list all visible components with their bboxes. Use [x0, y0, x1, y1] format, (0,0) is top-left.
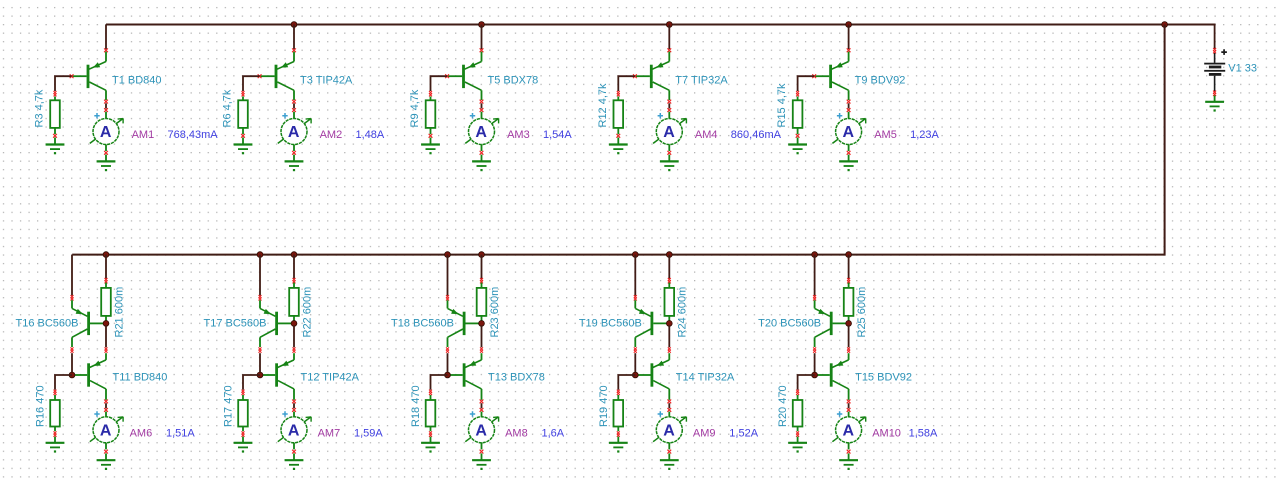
svg-text:T20 BC560B: T20 BC560B — [758, 317, 821, 329]
svg-text:T13 BDX78: T13 BDX78 — [488, 371, 545, 383]
ground under AM5 — [839, 155, 858, 172]
wire: lower rail down to R21 — [105, 255, 107, 279]
svg-text:R21 600m: R21 600m — [113, 287, 125, 338]
svg-text:768,43mA: 768,43mA — [168, 129, 219, 141]
pin marker: R18 bottom terminal — [429, 431, 432, 434]
ground at R15 — [788, 138, 807, 155]
svg-text:A: A — [288, 422, 300, 439]
ammeter AM1 — [90, 112, 123, 151]
wire: T7 collector to ammeter AM4 — [668, 103, 670, 108]
wire: T11 collector to ammeter AM6 — [105, 403, 107, 408]
wire: T20 collector down to T15 base node — [813, 347, 816, 350]
node: junction of R21, T16 base and T11 emitter — [103, 321, 109, 327]
svg-text:T9 BDV92: T9 BDV92 — [855, 74, 906, 86]
wire: node down to T15 emitter — [848, 325, 850, 347]
resistor R25 — [844, 283, 854, 322]
pin marker: ground terminal under AM2 — [292, 151, 296, 155]
ammeter AM8 — [465, 411, 498, 449]
pin marker: T14 emitter terminal — [668, 347, 671, 350]
resistor R6 — [238, 97, 248, 135]
pin markers: R6 top terminal — [242, 91, 245, 94]
wire: T12 collector to ammeter AM7 — [293, 403, 295, 408]
transistor T18 (BC560B, PNP) — [448, 300, 482, 347]
ground under AM4 — [660, 155, 679, 172]
pin markers: R24 top terminal — [668, 278, 671, 281]
pin marker: ground terminal under AM1 — [104, 151, 108, 155]
svg-text:R9 4,7k: R9 4,7k — [409, 89, 421, 127]
svg-text:A: A — [663, 124, 675, 141]
ground under AM1 — [97, 155, 116, 172]
wire: T5 collector to ammeter AM3 — [481, 103, 483, 108]
pin marker: ground terminal under AM3 — [480, 151, 484, 155]
svg-text:AM5: AM5 — [874, 129, 897, 141]
node: junction of R22, T17 base and T12 emitter — [291, 321, 297, 327]
svg-text:A: A — [100, 422, 112, 439]
pin markers: R25 top terminal — [847, 278, 850, 281]
ammeter AM7 — [278, 411, 311, 449]
svg-text:1,51A: 1,51A — [166, 428, 195, 440]
wire: lower rail down to T16 emitter — [71, 255, 73, 296]
resistor R22 — [289, 283, 299, 322]
pin marker: T1 base terminal — [70, 74, 74, 78]
node: junction of top rail and link wire to lower rail — [1162, 22, 1168, 28]
transistor T19 (BC560B, PNP) — [635, 300, 669, 347]
pin marker: AM5 + terminal — [847, 108, 851, 112]
svg-text:A: A — [475, 124, 487, 141]
pin marker: T3 collector terminal — [292, 100, 296, 104]
svg-text:T3 TIP42A: T3 TIP42A — [300, 74, 353, 86]
svg-text:AM3: AM3 — [507, 129, 530, 141]
svg-text:R12 4,7k: R12 4,7k — [597, 83, 609, 128]
wire: T5 base to resistor R9 — [431, 76, 448, 91]
transistor T1 (BD840, PNP) — [72, 52, 106, 100]
wire: node down to T12 emitter — [293, 325, 295, 347]
svg-text:AM8: AM8 — [505, 428, 528, 440]
svg-text:A: A — [843, 422, 855, 439]
svg-text:T5 BDX78: T5 BDX78 — [488, 74, 539, 86]
svg-text:R24 600m: R24 600m — [677, 287, 689, 338]
wire: lower rail down to T17 emitter — [259, 255, 261, 296]
svg-text:AM10: AM10 — [872, 428, 901, 440]
pin marker: R19 bottom terminal — [617, 431, 620, 434]
pin markers: R3 top terminal — [54, 91, 57, 94]
ammeter AM2 — [278, 112, 311, 151]
pin marker: R16 bottom terminal — [54, 431, 57, 434]
svg-text:T14 TIP32A: T14 TIP32A — [676, 371, 735, 383]
wire: T14 collector to ammeter AM9 — [668, 403, 670, 408]
pin marker: T13 collector terminal — [480, 400, 484, 404]
pin marker: ground terminal under AM4 — [667, 151, 671, 155]
pin markers: R17 top terminal — [242, 390, 245, 393]
node: junction of top rail and T7 emitter branch — [666, 22, 672, 28]
pin marker: R20 bottom terminal — [796, 431, 799, 434]
svg-text:T1 BD840: T1 BD840 — [112, 74, 162, 86]
resistor R9 — [426, 97, 436, 135]
ground under AM8 — [472, 453, 491, 470]
node: junction of top rail and T9 emitter branch — [846, 22, 852, 28]
pin marker: R15 bottom terminal — [796, 134, 800, 138]
pin marker: T20 emitter terminal — [813, 295, 816, 298]
wire: lower rail down to T19 emitter — [634, 255, 636, 296]
ground at R3 — [46, 138, 65, 155]
pin marker: T19 emitter terminal — [634, 295, 637, 298]
resistor R21 — [101, 283, 111, 322]
transistor T17 (BC560B, PNP) — [260, 300, 294, 347]
battery V1 (33 V) — [1204, 49, 1227, 91]
transistor T7 (TIP32A, PNP) — [635, 52, 669, 100]
svg-text:R20 470: R20 470 — [777, 385, 789, 427]
svg-text:A: A — [843, 124, 855, 141]
wire: node down to T14 emitter — [668, 325, 670, 347]
node: lower rail junction at R25 — [846, 252, 852, 258]
ground at R17 — [234, 437, 253, 453]
svg-text:1,54A: 1,54A — [543, 129, 572, 141]
wire: T16 collector down to T11 base node — [71, 347, 74, 350]
wire: T1 collector to ammeter AM1 — [105, 103, 107, 108]
node: lower rail junction at T20 emitter branch — [812, 252, 818, 258]
pin marker: ground terminal under AM7 — [292, 450, 296, 454]
node: lower rail junction at R23 — [479, 252, 485, 258]
pin marker: AM3 + terminal — [480, 108, 484, 112]
pin marker: AM2 + terminal — [292, 108, 296, 112]
pin marker: AM10 + terminal — [847, 408, 851, 412]
pin marker: T12 collector terminal — [292, 400, 296, 404]
wire: node to resistor R16 — [55, 375, 72, 390]
svg-text:T15 BDV92: T15 BDV92 — [855, 371, 912, 383]
pin markers: R12 top terminal — [617, 91, 620, 94]
node: junction of T20 collector, T15 base and R20 — [812, 372, 818, 378]
svg-text:T11 BD840: T11 BD840 — [113, 371, 168, 383]
node: junction of top rail and T3 emitter branch — [291, 22, 297, 28]
pin marker: AM9 + terminal — [667, 408, 671, 412]
transistor T5 (BDX78, PNP) — [447, 52, 481, 100]
wire: lower rail down to R22 — [293, 255, 295, 279]
node: junction of T17 collector, T12 base and R17 — [257, 372, 263, 378]
pin marker: AM1 + terminal — [104, 108, 108, 112]
node: junction of R25, T20 base and T15 emitter — [846, 321, 852, 327]
pin marker: T18 emitter terminal — [446, 295, 449, 298]
node: lower rail junction at R22 — [291, 252, 297, 258]
wire: node to resistor R19 — [618, 375, 635, 390]
wire: link from top rail down to lower supply rail — [72, 25, 1164, 255]
svg-text:1,48A: 1,48A — [356, 129, 385, 141]
pin marker: AM8 + terminal — [480, 408, 484, 412]
node: junction of T18 collector, T13 base and R18 — [445, 372, 451, 378]
pin marker: T3 emitter terminal — [292, 48, 296, 52]
svg-text:T7 TIP32A: T7 TIP32A — [675, 74, 728, 86]
pin marker: T5 collector terminal — [480, 100, 484, 104]
resistor R18 — [426, 395, 436, 431]
resistor R24 — [665, 283, 675, 322]
pin marker: T9 emitter terminal — [847, 48, 851, 52]
svg-text:R19 470: R19 470 — [598, 385, 610, 427]
pin marker: R9 bottom terminal — [429, 134, 433, 138]
wire: rail down to T5 emitter — [481, 25, 483, 50]
node: junction of R23, T18 base and T13 emitter — [479, 321, 485, 327]
svg-text:1,58A: 1,58A — [909, 428, 938, 440]
wire: T19 collector down to T14 base node — [634, 347, 637, 350]
pin marker: T5 base terminal — [445, 74, 449, 78]
pin markers: R20 top terminal — [796, 390, 799, 393]
svg-text:1,52A: 1,52A — [729, 428, 758, 440]
pin marker: T9 collector terminal — [847, 100, 851, 104]
wire: T1 base to resistor R3 — [55, 76, 72, 91]
wire: lower rail down to R23 — [481, 255, 483, 279]
pin marker: T1 collector terminal — [104, 100, 108, 104]
transistor T13 (BDX78, PNP) — [450, 353, 482, 400]
transistor T15 (BDV92, PNP) — [817, 353, 849, 400]
wire: rail down to T1 emitter — [105, 25, 107, 50]
wire: rail down to T9 emitter — [848, 25, 850, 50]
node: lower rail junction at R24 — [666, 252, 672, 258]
resistor R3 — [50, 97, 60, 135]
wire: T3 collector to ammeter AM2 — [293, 103, 295, 108]
ground under AM7 — [285, 453, 304, 470]
pin markers: R9 top terminal — [429, 91, 432, 94]
transistor T20 (BC560B, PNP) — [815, 300, 849, 347]
resistor R16 — [50, 395, 60, 431]
svg-text:R3 4,7k: R3 4,7k — [34, 89, 46, 127]
wire: T9 base to resistor R15 — [798, 76, 815, 91]
ammeter AM10 — [832, 411, 865, 449]
pin marker: T11 emitter terminal — [105, 347, 108, 350]
wire: T17 collector down to T12 base node — [259, 347, 262, 350]
pin markers: R22 top terminal — [293, 278, 296, 281]
transistor T12 (TIP42A, PNP) — [262, 353, 294, 400]
wire: rail down to T3 emitter — [293, 25, 295, 50]
pin marker: R6 bottom terminal — [241, 134, 245, 138]
ammeter AM3 — [465, 112, 498, 151]
node: lower rail junction at T18 emitter branch — [445, 252, 451, 258]
ground at R9 — [421, 138, 440, 155]
svg-text:R22 600m: R22 600m — [301, 287, 313, 338]
ammeter AM4 — [653, 112, 686, 151]
svg-text:AM4: AM4 — [695, 129, 718, 141]
wire: lower rail down to T20 emitter — [814, 255, 816, 296]
svg-text:R18 470: R18 470 — [410, 385, 422, 427]
svg-text:T16 BC560B: T16 BC560B — [16, 317, 79, 329]
resistor R17 — [238, 395, 248, 431]
svg-text:AM9: AM9 — [693, 428, 716, 440]
wire: lower rail down to R25 — [848, 255, 850, 279]
resistor R23 — [477, 283, 487, 322]
ammeter AM9 — [653, 411, 686, 449]
pin markers: R19 top terminal — [617, 390, 620, 393]
pin markers: R21 top terminal — [105, 278, 108, 281]
resistor R12 — [614, 97, 624, 135]
pin markers: R15 top terminal — [796, 91, 799, 94]
svg-text:A: A — [100, 124, 112, 141]
node: junction of T16 collector, T11 base and R16 — [69, 372, 75, 378]
ammeter AM5 — [832, 112, 865, 151]
transistor T16 (BC560B, PNP) — [72, 300, 106, 347]
pin marker: T15 collector terminal — [847, 400, 851, 404]
pin marker: T9 base terminal — [812, 74, 816, 78]
pin marker: AM6 + terminal — [104, 408, 108, 412]
svg-text:AM2: AM2 — [320, 129, 343, 141]
svg-text:1,59A: 1,59A — [354, 428, 383, 440]
pin marker: AM7 + terminal — [292, 408, 296, 412]
node: junction of top rail and T5 emitter branch — [479, 22, 485, 28]
pin marker: AM4 + terminal — [667, 108, 671, 112]
node: lower rail junction at T19 emitter branch — [632, 252, 638, 258]
pin marker: ground terminal under AM8 — [480, 450, 484, 454]
pin marker: R3 bottom terminal — [53, 134, 57, 138]
wire: rail down to T7 emitter — [668, 25, 670, 50]
wire: T13 collector to ammeter AM8 — [481, 403, 483, 408]
resistor R15 — [793, 97, 803, 135]
ground under AM3 — [472, 155, 491, 172]
ground at R18 — [421, 437, 440, 453]
wire: T18 collector down to T13 base node — [446, 347, 449, 350]
svg-text:A: A — [475, 422, 487, 439]
wire: node to resistor R20 — [798, 375, 815, 390]
svg-text:1,6A: 1,6A — [542, 428, 565, 440]
pin marker: T16 emitter terminal — [71, 295, 74, 298]
svg-text:R16 470: R16 470 — [35, 385, 47, 427]
transistor T14 (TIP32A, PNP) — [637, 353, 669, 400]
pin markers: R16 top terminal — [54, 390, 57, 393]
wire: T3 base to resistor R6 — [243, 76, 260, 91]
pin marker: T3 base terminal — [258, 74, 262, 78]
svg-text:T17 BC560B: T17 BC560B — [204, 317, 267, 329]
svg-text:R23 600m: R23 600m — [489, 287, 501, 338]
ground at R19 — [609, 437, 628, 453]
svg-text:T19 BC560B: T19 BC560B — [579, 317, 642, 329]
ground under AM6 — [97, 453, 116, 470]
wire: T7 base to resistor R12 — [618, 76, 635, 91]
pin marker: T7 collector terminal — [667, 100, 671, 104]
wire: node to resistor R18 — [431, 375, 448, 390]
svg-text:R15 4,7k: R15 4,7k — [776, 83, 788, 128]
pin marker: T17 emitter terminal — [259, 295, 262, 298]
pin marker: T5 emitter terminal — [480, 48, 484, 52]
ground at R16 — [46, 437, 65, 453]
ground at R6 — [234, 138, 253, 155]
wire: node to resistor R17 — [243, 375, 260, 390]
pin marker: ground terminal under AM9 — [667, 450, 671, 454]
ammeter AM6 — [90, 411, 123, 449]
ground at R12 — [609, 138, 628, 155]
wire: battery V1 positive lead from rail — [1214, 25, 1216, 49]
resistor R19 — [614, 395, 624, 431]
pin markers: R23 top terminal — [480, 278, 483, 281]
wire: T15 collector to ammeter AM10 — [848, 403, 850, 408]
svg-text:1,23A: 1,23A — [910, 129, 939, 141]
transistor T11 (BD840, PNP) — [74, 353, 106, 400]
pin marker: R17 bottom terminal — [242, 431, 245, 434]
wire: node down to T11 emitter — [105, 325, 107, 347]
pin marker: ground terminal under AM6 — [104, 450, 108, 454]
pin markers: R18 top terminal — [429, 390, 432, 393]
wire: top supply rail from T1 emitter to battery V1 — [106, 24, 1216, 26]
pin marker: T1 emitter terminal — [104, 48, 108, 52]
ground under battery V1 — [1205, 95, 1224, 111]
pin marker: T13 emitter terminal — [480, 347, 483, 350]
ground under AM2 — [285, 155, 304, 172]
svg-text:R17 470: R17 470 — [223, 385, 235, 427]
pin marker: T11 collector terminal — [104, 400, 108, 404]
node: lower rail junction at R21 — [103, 252, 109, 258]
resistor R20 — [793, 395, 803, 431]
pin marker: R12 bottom terminal — [616, 134, 620, 138]
pin marker: T7 base terminal — [633, 74, 637, 78]
transistor T9 (BDV92, PNP) — [814, 52, 848, 100]
svg-text:AM1: AM1 — [132, 129, 155, 141]
svg-text:T12 TIP42A: T12 TIP42A — [301, 371, 360, 383]
svg-text:A: A — [288, 124, 300, 141]
node: junction of R24, T19 base and T14 emitter — [666, 321, 672, 327]
wire: lower rail down to R24 — [668, 255, 670, 279]
svg-text:V1 33: V1 33 — [1228, 63, 1257, 75]
svg-text:T18 BC560B: T18 BC560B — [391, 317, 454, 329]
svg-text:A: A — [663, 422, 675, 439]
pin marker: T12 emitter terminal — [293, 347, 296, 350]
svg-text:R25 600m: R25 600m — [856, 287, 868, 338]
pin marker: T7 emitter terminal — [667, 48, 671, 52]
transistor T3 (TIP42A, PNP) — [260, 52, 294, 100]
pin marker: ground terminal under AM10 — [847, 450, 851, 454]
wire: T9 collector to ammeter AM5 — [848, 103, 850, 108]
svg-text:R6 4,7k: R6 4,7k — [222, 89, 234, 127]
wire: lower rail down to T18 emitter — [447, 255, 449, 296]
node: lower rail junction at T17 emitter branch — [257, 252, 263, 258]
svg-text:860,46mA: 860,46mA — [731, 129, 782, 141]
pin marker: V1 + terminal — [1213, 48, 1216, 51]
pin marker: T14 collector terminal — [667, 400, 671, 404]
ground at R20 — [788, 437, 807, 453]
pin marker: V1 - terminal — [1213, 91, 1216, 94]
pin marker: T15 emitter terminal — [847, 347, 850, 350]
node: junction of T19 collector, T14 base and R19 — [632, 372, 638, 378]
svg-text:AM7: AM7 — [318, 428, 341, 440]
pin marker: ground terminal under AM5 — [847, 151, 851, 155]
svg-text:AM6: AM6 — [130, 428, 153, 440]
ground under AM9 — [660, 453, 679, 470]
ground under AM10 — [839, 453, 858, 470]
wire: node down to T13 emitter — [481, 325, 483, 347]
